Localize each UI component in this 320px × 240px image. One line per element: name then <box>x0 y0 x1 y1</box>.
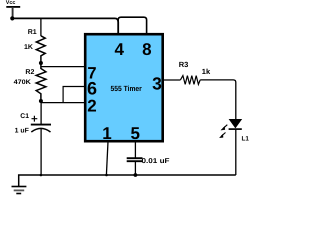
wire node A to pin 7 <box>41 66 86 68</box>
LED L1 <box>220 119 250 142</box>
pin 2 label <box>87 97 96 116</box>
resistor R2 <box>14 63 46 101</box>
svg-text:R1: R1 <box>28 29 37 36</box>
svg-text:3: 3 <box>152 74 162 94</box>
svg-text:4: 4 <box>114 40 124 59</box>
pin 7 label <box>87 65 96 83</box>
pin 5 label <box>130 124 139 143</box>
resistor R1 <box>24 29 45 62</box>
capacitor C1 <box>15 113 51 135</box>
node D junction dot C1/rail <box>40 174 43 177</box>
svg-text:1K: 1K <box>24 44 33 51</box>
svg-text:2: 2 <box>87 97 96 116</box>
wire pin 5 to C2 <box>134 142 136 159</box>
pin 1 label <box>102 124 111 143</box>
power symbol VCC <box>6 0 20 18</box>
wire node B to C1 <box>40 101 42 124</box>
wire LED to ground rail <box>235 129 237 175</box>
wire R1 drop from rail <box>40 18 42 36</box>
node E junction dot pin1/rail <box>105 174 108 177</box>
op-amp U1 555 timer body <box>85 34 163 141</box>
wire VCC top rail to pin 4 <box>12 18 118 33</box>
pin 4 label <box>114 40 124 59</box>
svg-text:1 uF: 1 uF <box>15 128 29 135</box>
svg-text:5: 5 <box>130 124 139 143</box>
wire pin 1 to ground rail <box>106 142 108 176</box>
wire C1 to ground rail <box>40 129 42 176</box>
pin 8 label <box>142 40 151 59</box>
svg-text:1: 1 <box>102 124 111 143</box>
svg-text:R3: R3 <box>179 60 189 69</box>
svg-text:6: 6 <box>87 78 97 98</box>
node B junction dot R2/C1/pin2 <box>39 99 43 103</box>
node C junction dot C2/rail <box>134 173 138 177</box>
svg-text:L1: L1 <box>242 135 250 142</box>
pin 6 label <box>87 78 97 98</box>
node VCC junction dot <box>10 16 14 20</box>
wire bottom ground rail <box>19 175 236 186</box>
wire pin 6 riser <box>63 87 85 103</box>
wire node B to pin 2 <box>41 102 86 104</box>
svg-text:Vcc: Vcc <box>6 0 16 6</box>
svg-text:0.01 uF: 0.01 uF <box>142 158 171 165</box>
wire pin 4 to pin 8 loop <box>118 17 146 33</box>
svg-text:C1: C1 <box>20 113 29 120</box>
node A junction dot R1/R2/pin7 <box>39 61 43 65</box>
svg-text:555 Timer: 555 Timer <box>111 84 142 93</box>
ground <box>12 187 27 194</box>
resistor R3 <box>179 60 211 84</box>
svg-text:R2: R2 <box>25 69 34 76</box>
capacitor C2 0.01 uF <box>127 158 171 165</box>
svg-text:8: 8 <box>142 40 151 59</box>
wire C2 to ground rail <box>134 161 136 175</box>
wire R3 to LED <box>200 80 236 120</box>
wire pin 3 stub <box>163 79 180 81</box>
svg-text:1k: 1k <box>202 67 211 76</box>
svg-text:470K: 470K <box>14 79 32 86</box>
pin 3 label <box>152 74 162 94</box>
